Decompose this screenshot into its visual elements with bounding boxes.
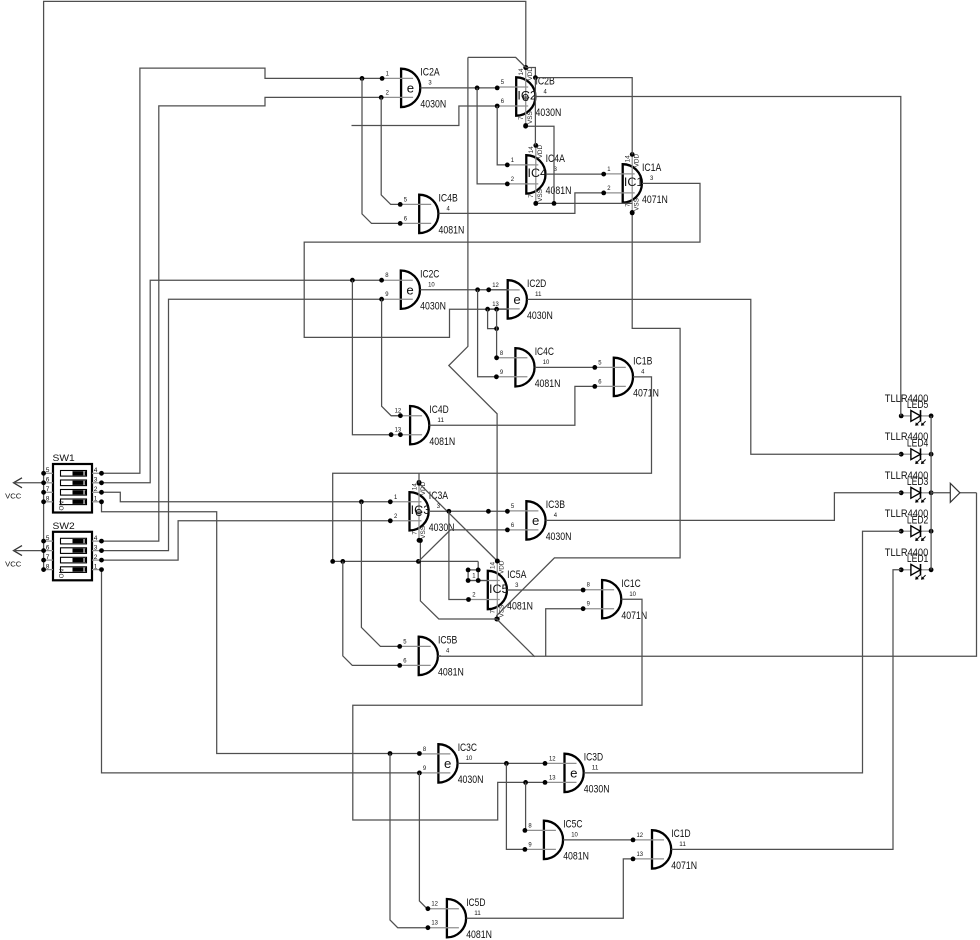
svg-text:6: 6 bbox=[404, 215, 408, 222]
svg-text:2: 2 bbox=[394, 513, 398, 520]
svg-text:LED3: LED3 bbox=[907, 476, 928, 488]
svg-text:2: 2 bbox=[511, 176, 515, 183]
svg-text:8: 8 bbox=[500, 350, 504, 357]
svg-text:IC1D: IC1D bbox=[671, 828, 691, 840]
svg-text:LED5: LED5 bbox=[907, 399, 928, 411]
svg-text:IC4A: IC4A bbox=[546, 153, 566, 165]
svg-text:9: 9 bbox=[500, 369, 504, 376]
svg-text:6: 6 bbox=[46, 477, 50, 484]
svg-text:7: 7 bbox=[528, 194, 535, 198]
svg-text:4081N: 4081N bbox=[439, 225, 465, 237]
svg-text:5: 5 bbox=[403, 638, 407, 645]
svg-text:1: 1 bbox=[94, 563, 98, 570]
svg-text:4030N: 4030N bbox=[458, 774, 484, 786]
svg-text:10: 10 bbox=[543, 359, 550, 366]
svg-text:4: 4 bbox=[446, 648, 450, 655]
svg-text:VSS: VSS bbox=[537, 189, 544, 202]
svg-text:11: 11 bbox=[679, 841, 686, 848]
svg-text:1: 1 bbox=[386, 70, 390, 77]
svg-text:VDD: VDD bbox=[499, 560, 506, 574]
svg-text:e: e bbox=[444, 756, 451, 771]
svg-text:LED4: LED4 bbox=[907, 438, 928, 450]
svg-text:4081N: 4081N bbox=[546, 185, 572, 197]
svg-text:11: 11 bbox=[437, 417, 444, 424]
svg-text:3: 3 bbox=[428, 80, 432, 87]
svg-text:5: 5 bbox=[404, 196, 408, 203]
svg-text:5: 5 bbox=[46, 467, 50, 474]
svg-text:6: 6 bbox=[598, 378, 602, 385]
svg-text:2: 2 bbox=[94, 554, 98, 561]
svg-text:4: 4 bbox=[94, 467, 98, 474]
svg-text:6: 6 bbox=[46, 544, 50, 551]
svg-text:4: 4 bbox=[544, 88, 548, 95]
svg-text:IC1B: IC1B bbox=[633, 356, 652, 368]
svg-text:8: 8 bbox=[385, 272, 389, 279]
svg-text:5: 5 bbox=[46, 535, 50, 542]
svg-text:IC2D: IC2D bbox=[527, 278, 547, 290]
svg-text:9: 9 bbox=[528, 841, 532, 848]
svg-text:IC3C: IC3C bbox=[458, 742, 478, 754]
svg-text:e: e bbox=[522, 89, 529, 104]
svg-text:4030N: 4030N bbox=[420, 99, 446, 111]
svg-text:6: 6 bbox=[403, 657, 407, 664]
svg-text:IC3B: IC3B bbox=[546, 499, 565, 511]
svg-text:4030N: 4030N bbox=[420, 300, 446, 312]
svg-text:ON: ON bbox=[59, 569, 66, 578]
svg-text:SW1: SW1 bbox=[53, 453, 75, 464]
svg-text:4: 4 bbox=[94, 535, 98, 542]
svg-text:9: 9 bbox=[587, 601, 591, 608]
svg-text:IC5C: IC5C bbox=[563, 819, 583, 831]
svg-text:4030N: 4030N bbox=[546, 531, 572, 543]
svg-text:5: 5 bbox=[501, 79, 505, 86]
svg-text:VSS: VSS bbox=[420, 526, 427, 539]
svg-text:10: 10 bbox=[571, 832, 578, 839]
svg-text:VDD: VDD bbox=[527, 67, 534, 81]
svg-text:e: e bbox=[407, 81, 414, 96]
svg-text:4030N: 4030N bbox=[536, 107, 562, 119]
svg-text:LED1: LED1 bbox=[907, 553, 928, 565]
svg-text:4081N: 4081N bbox=[563, 851, 589, 863]
svg-text:13: 13 bbox=[637, 851, 644, 858]
svg-text:IC3D: IC3D bbox=[584, 752, 604, 764]
svg-text:4071N: 4071N bbox=[621, 610, 647, 622]
svg-text:4030N: 4030N bbox=[527, 310, 553, 322]
svg-text:3: 3 bbox=[650, 175, 654, 182]
svg-text:1: 1 bbox=[472, 573, 476, 580]
svg-text:11: 11 bbox=[535, 291, 542, 298]
svg-text:4081N: 4081N bbox=[466, 929, 492, 940]
svg-text:IC5D: IC5D bbox=[466, 897, 486, 909]
svg-text:12: 12 bbox=[431, 901, 438, 908]
svg-text:IC4D: IC4D bbox=[429, 404, 449, 416]
svg-text:VCC: VCC bbox=[5, 559, 21, 568]
svg-text:8: 8 bbox=[423, 746, 427, 753]
svg-text:VSS: VSS bbox=[633, 198, 640, 211]
svg-text:3: 3 bbox=[94, 477, 98, 484]
svg-text:5: 5 bbox=[598, 359, 602, 366]
svg-text:2: 2 bbox=[94, 486, 98, 493]
svg-text:8: 8 bbox=[528, 822, 532, 829]
svg-text:4: 4 bbox=[554, 512, 558, 519]
svg-text:VDD: VDD bbox=[537, 145, 544, 159]
svg-text:14: 14 bbox=[625, 155, 632, 163]
svg-text:5: 5 bbox=[511, 503, 515, 510]
svg-text:4081N: 4081N bbox=[429, 436, 455, 448]
svg-text:7: 7 bbox=[490, 610, 497, 614]
svg-text:11: 11 bbox=[592, 765, 599, 772]
svg-text:3: 3 bbox=[515, 582, 519, 589]
svg-text:9: 9 bbox=[423, 765, 427, 772]
svg-text:12: 12 bbox=[492, 282, 499, 289]
svg-text:IC1C: IC1C bbox=[621, 578, 641, 590]
svg-text:6: 6 bbox=[501, 98, 505, 105]
svg-text:4081N: 4081N bbox=[438, 667, 464, 679]
svg-text:6: 6 bbox=[511, 522, 515, 529]
svg-text:IC1: IC1 bbox=[624, 175, 644, 189]
svg-text:2: 2 bbox=[386, 89, 390, 96]
svg-text:IC2C: IC2C bbox=[420, 269, 440, 281]
svg-text:IC5: IC5 bbox=[489, 582, 509, 596]
svg-text:LED2: LED2 bbox=[907, 515, 928, 527]
svg-text:1: 1 bbox=[511, 157, 515, 164]
svg-text:IC5A: IC5A bbox=[507, 569, 527, 581]
svg-text:e: e bbox=[406, 282, 413, 297]
svg-text:8: 8 bbox=[587, 582, 591, 589]
svg-text:7: 7 bbox=[518, 116, 525, 120]
svg-text:IC2A: IC2A bbox=[420, 67, 440, 79]
svg-text:4071N: 4071N bbox=[633, 388, 659, 400]
svg-text:e: e bbox=[513, 292, 520, 307]
svg-text:VCC: VCC bbox=[5, 492, 21, 501]
svg-text:IC5B: IC5B bbox=[438, 635, 457, 647]
svg-text:8: 8 bbox=[46, 563, 50, 570]
svg-text:IC4B: IC4B bbox=[439, 193, 458, 205]
svg-text:2: 2 bbox=[607, 185, 611, 192]
svg-text:9: 9 bbox=[385, 291, 389, 298]
svg-text:12: 12 bbox=[549, 755, 556, 762]
svg-text:4071N: 4071N bbox=[642, 194, 668, 206]
svg-text:7: 7 bbox=[46, 554, 50, 561]
svg-text:4: 4 bbox=[447, 206, 451, 213]
svg-text:12: 12 bbox=[637, 832, 644, 839]
svg-text:7: 7 bbox=[411, 531, 418, 535]
svg-text:3: 3 bbox=[94, 544, 98, 551]
svg-text:10: 10 bbox=[466, 755, 473, 762]
svg-text:IC1A: IC1A bbox=[642, 162, 662, 174]
svg-text:11: 11 bbox=[474, 910, 481, 917]
svg-text:13: 13 bbox=[492, 301, 499, 308]
svg-text:14: 14 bbox=[528, 146, 535, 154]
svg-text:e: e bbox=[415, 504, 422, 519]
svg-text:e: e bbox=[532, 513, 539, 528]
svg-text:1: 1 bbox=[607, 166, 611, 173]
svg-text:4081N: 4081N bbox=[535, 378, 561, 390]
svg-text:10: 10 bbox=[629, 591, 636, 598]
svg-text:4081N: 4081N bbox=[507, 601, 533, 613]
svg-text:SW2: SW2 bbox=[53, 521, 75, 532]
svg-text:1: 1 bbox=[394, 494, 398, 501]
svg-text:4071N: 4071N bbox=[671, 860, 697, 872]
svg-text:IC4: IC4 bbox=[528, 166, 548, 180]
svg-text:1: 1 bbox=[94, 496, 98, 503]
svg-text:e: e bbox=[570, 766, 577, 781]
svg-text:7: 7 bbox=[46, 486, 50, 493]
svg-text:2: 2 bbox=[472, 592, 476, 599]
svg-text:4030N: 4030N bbox=[584, 784, 610, 796]
svg-text:VSS: VSS bbox=[527, 111, 534, 124]
svg-text:13: 13 bbox=[549, 774, 556, 781]
svg-text:8: 8 bbox=[46, 496, 50, 503]
svg-text:4: 4 bbox=[641, 369, 645, 376]
svg-text:4030N: 4030N bbox=[429, 522, 455, 534]
svg-text:10: 10 bbox=[428, 282, 435, 289]
svg-text:13: 13 bbox=[431, 920, 438, 927]
svg-text:IC4C: IC4C bbox=[535, 346, 555, 358]
svg-text:ON: ON bbox=[59, 501, 66, 510]
svg-text:VDD: VDD bbox=[633, 154, 640, 168]
